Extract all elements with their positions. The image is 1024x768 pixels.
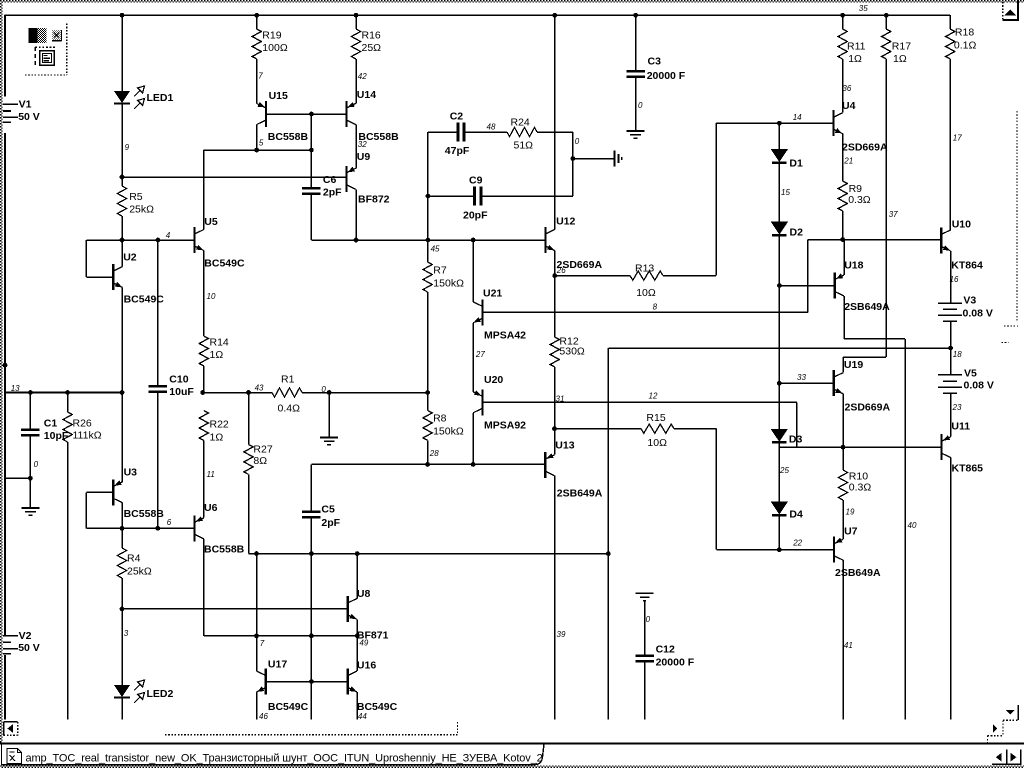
svg-text:R19: R19 (262, 30, 281, 42)
wire D3 to D4 (778, 442, 780, 501)
capacitor C10 (149, 385, 168, 388)
svg-text:40: 40 (908, 521, 917, 530)
wire U20 collector to node 28 rail (472, 413, 474, 465)
svg-text:36: 36 (842, 84, 851, 93)
wire base drive node 9 horizontal (122, 176, 346, 178)
wire C2 left (428, 131, 457, 133)
svg-text:2SB649A: 2SB649A (557, 488, 603, 500)
svg-text:2SB649A: 2SB649A (835, 567, 881, 579)
page boundary dotted corner top-left with icons (66, 24, 68, 76)
svg-text:37: 37 (889, 210, 898, 219)
wire V5 to U11 (950, 393, 952, 437)
wire D1 to D2 (778, 163, 780, 221)
svg-text:C9: C9 (469, 175, 483, 187)
svg-text:R17: R17 (892, 41, 911, 53)
svg-text:U9: U9 (357, 151, 371, 163)
svg-text:0.08 V: 0.08 V (963, 308, 993, 320)
window bottom dotted border (0, 766, 1024, 768)
svg-text:U11: U11 (951, 421, 970, 433)
transistor U4 2SD669A npn (832, 110, 834, 136)
wire U3 emitter from node 13 rail (121, 393, 123, 482)
transistor U15 BC558B pnp (265, 101, 267, 127)
LED D5 LED1 (114, 91, 130, 103)
svg-text:U21: U21 (483, 288, 502, 300)
svg-text:44: 44 (358, 712, 367, 721)
svg-text:8Ω: 8Ω (253, 455, 267, 467)
wire U8 collector to rail (356, 554, 358, 599)
wire U13 collector hanging (554, 476, 556, 720)
svg-text:11: 11 (207, 470, 215, 479)
wire U21 collector to node 45 rail (472, 240, 474, 302)
svg-text:MPSA42: MPSA42 (484, 330, 526, 342)
wire U11 collector hanging (950, 458, 952, 720)
svg-text:47pF: 47pF (445, 145, 470, 157)
resistor R11 (842, 15, 844, 29)
diode D3 (771, 429, 788, 442)
wire node 6 rail to y553 rail via R27 done above; rail y=553.6 (249, 553, 609, 555)
svg-text:R8: R8 (433, 413, 447, 425)
svg-text:V1: V1 (19, 99, 32, 111)
svg-text:2pF: 2pF (323, 187, 342, 199)
wire U7 collector hanging node 41 (842, 560, 844, 719)
wire U4 emitter to R9 (842, 134, 844, 181)
resistor R9 (838, 181, 847, 211)
wire U2 emitter down to node 13 rail (121, 288, 123, 393)
svg-text:2pF: 2pF (321, 517, 340, 529)
svg-text:0: 0 (321, 385, 326, 394)
svg-text:9: 9 (125, 143, 130, 152)
resistor R24 (507, 127, 537, 136)
node 45 rail horizontal (311, 239, 545, 241)
wire D2 to U18 base node (778, 236, 780, 286)
svg-text:33: 33 (797, 373, 806, 382)
svg-text:150kΩ: 150kΩ (433, 426, 464, 438)
wire LED2 cathode hanging (121, 698, 123, 720)
svg-text:D2: D2 (790, 227, 804, 239)
svg-text:U20: U20 (484, 374, 503, 386)
wire left supply column V1-V2 (4, 15, 6, 96)
transistor U17 BC549C npn (265, 669, 267, 695)
transistor U16 BC549C npn (347, 669, 349, 695)
diode D1 (778, 123, 780, 149)
wire hanging node 40 column (904, 339, 906, 720)
capacitor C3 (635, 15, 637, 70)
capacitor C12 (635, 654, 654, 657)
svg-text:31: 31 (556, 394, 565, 403)
svg-text:0.3Ω: 0.3Ω (848, 194, 871, 206)
svg-text:amp_TOC_real_transistor_new_OK: amp_TOC_real_transistor_new_OK_Транзисто… (26, 753, 543, 765)
svg-text:0.1Ω: 0.1Ω (954, 40, 977, 52)
svg-text:20000 F: 20000 F (656, 657, 695, 669)
svg-text:1Ω: 1Ω (210, 349, 224, 361)
transistor U8 BF871 npn (347, 596, 349, 622)
svg-text:111kΩ: 111kΩ (73, 430, 102, 442)
svg-text:13: 13 (11, 384, 20, 393)
svg-text:V2: V2 (19, 630, 32, 642)
svg-text:BF872: BF872 (358, 194, 390, 206)
wire node 18 corner down left side (607, 348, 609, 554)
svg-text:U2: U2 (123, 252, 137, 264)
svg-text:BF871: BF871 (357, 630, 389, 642)
svg-text:12: 12 (649, 392, 658, 401)
svg-text:V5: V5 (964, 368, 977, 380)
transistor U7 2SB649A pnp (833, 537, 835, 563)
svg-text:3: 3 (124, 629, 129, 638)
svg-text:U8: U8 (357, 588, 371, 600)
svg-text:D3: D3 (789, 434, 803, 446)
wire U3 base loop (86, 491, 113, 493)
svg-text:0.08 V: 0.08 V (964, 380, 994, 392)
resistor R8 (425, 390, 430, 395)
svg-text:19: 19 (846, 508, 855, 517)
resistor R19 (256, 15, 258, 29)
wire D4 to node 22 (778, 515, 780, 550)
svg-text:R27: R27 (253, 444, 272, 456)
svg-text:U12: U12 (556, 216, 575, 228)
document tab bar (2, 744, 545, 765)
wire U15 collector to node 5 rail (256, 125, 258, 151)
wire U6 collector down to node 49 rail (203, 539, 205, 636)
svg-text:0: 0 (575, 137, 580, 146)
svg-text:R26: R26 (73, 418, 92, 430)
wire U16 emitter node 44 (356, 692, 358, 720)
transistor U20 MPSA92 pnp (481, 389, 483, 415)
svg-text:1Ω: 1Ω (848, 53, 862, 65)
svg-text:1Ω: 1Ω (210, 432, 224, 444)
resistor R10 (842, 447, 844, 470)
svg-text:25: 25 (779, 466, 789, 475)
wire U18 collector down and right (843, 296, 845, 339)
wire U9 collector to node 45 rail (355, 189, 357, 240)
svg-text:R11: R11 (847, 41, 866, 53)
wire C12 ground column (636, 592, 654, 594)
svg-text:U5: U5 (204, 216, 218, 228)
ground at C1 (29, 478, 31, 508)
svg-text:22: 22 (792, 539, 802, 548)
ground at C3 (627, 130, 645, 132)
svg-text:R24: R24 (511, 117, 530, 129)
tab document icon (7, 749, 22, 764)
wire U17 emitter node 46 (256, 692, 258, 720)
wire R26 bottom hanging (67, 442, 69, 720)
svg-text:100Ω: 100Ω (262, 42, 288, 54)
wire U11 base rail (779, 446, 941, 448)
transistor U18 2SB649A pnp (834, 273, 836, 299)
wire U14 collector to U9 emitter (355, 125, 357, 169)
svg-text:35: 35 (859, 4, 868, 13)
battery V1 (3, 103, 18, 105)
icon dashed selection box with document (34, 47, 36, 67)
svg-text:U17: U17 (268, 659, 287, 671)
transistor U5 BC549C npn (193, 227, 195, 253)
svg-text:C6: C6 (323, 174, 337, 186)
svg-text:D1: D1 (789, 158, 803, 170)
transistor U3 BC558B pnp (112, 479, 114, 505)
resistor R27 (248, 393, 250, 445)
resistor R22 (199, 411, 208, 441)
svg-text:BC558B: BC558B (204, 544, 245, 556)
transistor U12 2SD669A npn (544, 227, 546, 253)
battery V5 (950, 348, 952, 375)
window top dotted border (0, 0, 1024, 2)
wire U2 collector (121, 240, 123, 267)
svg-text:C12: C12 (656, 644, 675, 656)
wire U10 base rail (808, 239, 942, 241)
svg-text:20pF: 20pF (463, 210, 488, 222)
svg-text:LED1: LED1 (147, 92, 174, 104)
resistor R18 (949, 15, 951, 29)
wire U12/R13 to D1 loop: R13 right up to node 14 (715, 123, 717, 275)
svg-text:U18: U18 (844, 260, 863, 272)
wire U3 collector to node 6 (121, 503, 123, 529)
wire node 31 horizontal (482, 401, 797, 403)
svg-text:BC549C: BC549C (204, 258, 245, 270)
svg-text:C5: C5 (321, 504, 335, 516)
capacitor C2 branch (427, 132, 429, 240)
svg-text:8: 8 (653, 303, 658, 312)
svg-text:15: 15 (781, 188, 790, 197)
svg-text:U4: U4 (842, 100, 856, 112)
horizontal scrollbar dotted track (165, 734, 458, 736)
wire node 4 rail (86, 239, 194, 241)
wire U8 base horizontal (122, 608, 348, 610)
svg-text:4: 4 (166, 231, 171, 240)
svg-text:150kΩ: 150kΩ (433, 278, 464, 290)
svg-text:50 V: 50 V (18, 111, 40, 123)
svg-text:46: 46 (259, 712, 268, 721)
wire diode string down to U19 base node 33 (778, 286, 780, 384)
page boundary dotted right upper (1016, 111, 1018, 322)
wire U5 emitter to R14 (203, 251, 205, 337)
svg-text:27: 27 (475, 350, 485, 359)
svg-text:2SD669A: 2SD669A (842, 142, 888, 154)
wire node 22 horizontal (716, 549, 834, 551)
resistor R16 (355, 15, 357, 29)
svg-text:25Ω: 25Ω (362, 42, 382, 54)
resistor R4 (121, 528, 123, 548)
capacitor C5 column (310, 464, 312, 510)
diode D4 (771, 502, 788, 515)
wire node 8 base rail (482, 311, 807, 313)
wire R24 right down to C9 (572, 132, 574, 196)
capacitor C1 (29, 393, 31, 429)
svg-text:10Ω: 10Ω (647, 437, 667, 449)
wire U5 collector to node 5 (203, 150, 205, 230)
svg-text:25kΩ: 25kΩ (127, 566, 152, 578)
resistor R14 (199, 336, 208, 366)
svg-text:5: 5 (259, 139, 264, 148)
svg-text:28: 28 (429, 449, 439, 458)
svg-text:0.4Ω: 0.4Ω (278, 403, 301, 415)
transistor U9 BF872 pnp (345, 166, 347, 192)
svg-text:U13: U13 (555, 440, 574, 452)
wire node8 corner up (807, 240, 809, 313)
svg-text:LED2: LED2 (147, 688, 174, 700)
svg-text:1Ω: 1Ω (893, 53, 907, 65)
icon half-dithered square (29, 28, 38, 43)
wire node 28 rail horizontal (311, 463, 545, 465)
svg-text:D4: D4 (789, 509, 803, 521)
wire C6 top column (310, 114, 312, 187)
resistor R1 (272, 388, 302, 397)
ground stub node 0 (573, 158, 615, 160)
wire diode string to D3 (778, 383, 780, 429)
svg-text:26: 26 (556, 266, 566, 275)
wire V3 to node 18 (950, 321, 952, 348)
wire U8 base drive junction (120, 607, 125, 612)
svg-text:7: 7 (260, 639, 265, 648)
wire C6 bottom to node 45 rail (310, 195, 312, 240)
wire node 13 input rail (5, 392, 122, 394)
svg-text:2SD669A: 2SD669A (845, 402, 891, 414)
capacitor C10 column (157, 240, 159, 385)
transistor U21 MPSA42 npn (481, 299, 483, 325)
svg-text:C10: C10 (169, 374, 188, 386)
wire top supply rail node 35 (5, 14, 951, 16)
wire R15 right down to node 22 (715, 429, 717, 550)
svg-text:R14: R14 (210, 337, 229, 349)
battery V3 (938, 302, 962, 304)
svg-text:U16: U16 (357, 660, 376, 672)
svg-text:42: 42 (358, 72, 367, 81)
svg-text:BC558B: BC558B (124, 508, 165, 520)
window left dotted border (0, 0, 2, 744)
svg-text:U15: U15 (269, 90, 288, 102)
svg-text:48: 48 (487, 123, 496, 132)
svg-text:U7: U7 (844, 526, 858, 538)
svg-text:39: 39 (557, 630, 566, 639)
wire U21 emitter to U20 emitter node 27 (472, 323, 474, 392)
wire node 18 column to bottom (607, 554, 609, 720)
svg-text:R16: R16 (362, 30, 381, 42)
svg-text:C1: C1 (44, 418, 58, 430)
scrollbar up-arrow button top right (1017, 0, 1019, 21)
transistor U6 BC558B pnp (193, 515, 195, 541)
svg-text:10: 10 (207, 292, 216, 301)
svg-text:23: 23 (952, 403, 962, 412)
svg-text:C3: C3 (648, 56, 662, 68)
wire LED1 branch from rail (121, 15, 123, 91)
icon small dithered box (52, 30, 61, 41)
svg-text:U19: U19 (844, 359, 863, 371)
svg-text:10Ω: 10Ω (636, 287, 656, 299)
window bottom line (0, 742, 1024, 744)
node 43 rail (203, 392, 272, 394)
svg-text:R7: R7 (433, 265, 447, 277)
wire U18 emitter up to U10 base rail (843, 240, 845, 276)
wire ground tap to left column (5, 477, 30, 479)
transistor U10 KT864 npn (940, 227, 942, 253)
svg-text:R15: R15 (646, 412, 665, 424)
svg-text:C2: C2 (450, 111, 464, 123)
transistor U19 2SD669A npn (833, 370, 835, 396)
wire C12 bottom hanging (644, 663, 646, 720)
wire C10 bottom to node 6 rail (157, 393, 159, 528)
transistor U13 2SB649A pnp (544, 452, 546, 478)
bottom-left scroll arrow button (4, 721, 18, 723)
wire node 49 horizontal (204, 635, 357, 637)
resistor R7 (427, 240, 429, 262)
capacitor C9 (428, 195, 473, 197)
wire U13 emitter junction (554, 402, 556, 454)
svg-text:BC558B: BC558B (268, 131, 309, 143)
svg-text:2SB649A: 2SB649A (844, 301, 890, 313)
wire U12 emitter to R13 junction (554, 251, 556, 313)
ground at R1 (328, 393, 330, 438)
diode D2 (771, 222, 788, 235)
transistor U14 BC558B pnp (345, 101, 347, 127)
transistor U11 KT865 pnp (940, 434, 942, 460)
capacitor C5 (302, 510, 321, 513)
wire U2 base loop (85, 240, 87, 277)
LED D6 LED2 (114, 685, 130, 697)
resistor R17 (885, 15, 887, 29)
battery V2 (3, 635, 18, 637)
wire U12 collector to top rail (554, 15, 556, 229)
svg-text:MPSA92: MPSA92 (484, 420, 526, 432)
resistor R13 (555, 275, 630, 277)
wire U18 base (779, 285, 834, 287)
resistor R5 (121, 177, 123, 186)
svg-text:32: 32 (358, 140, 367, 149)
svg-text:10uF: 10uF (169, 386, 194, 398)
wire C5 bottom hanging column (310, 519, 312, 720)
svg-text:0.3Ω: 0.3Ω (849, 482, 872, 494)
svg-text:R18: R18 (955, 27, 974, 39)
transistor U2 BC549C npn diode-connected (112, 264, 114, 290)
wire LED1 cathode to node 9 junction (121, 104, 123, 177)
wire U17 collector column (256, 554, 258, 671)
svg-text:R1: R1 (281, 374, 295, 386)
svg-text:41: 41 (844, 641, 853, 650)
svg-text:R4: R4 (127, 553, 141, 565)
capacitor C6 (302, 187, 321, 190)
svg-text:51Ω: 51Ω (514, 140, 534, 152)
svg-text:0: 0 (34, 460, 39, 469)
wire node 12 corner down (796, 402, 798, 447)
svg-text:R22: R22 (210, 419, 229, 431)
svg-text:6: 6 (167, 518, 172, 527)
svg-text:18: 18 (953, 350, 962, 359)
wire U19 base (779, 382, 833, 384)
svg-text:50 V: 50 V (18, 642, 40, 654)
svg-text:0: 0 (638, 101, 643, 110)
svg-text:25kΩ: 25kΩ (129, 204, 154, 216)
svg-text:43: 43 (255, 384, 264, 393)
svg-text:17: 17 (953, 134, 962, 143)
wire U8 emitter to U16 collector (356, 619, 358, 671)
wire U19 emitter down to node at R10 (842, 394, 844, 448)
svg-text:R5: R5 (129, 191, 143, 203)
wire U10 emitter to V3 (950, 251, 952, 303)
svg-text:BC549C: BC549C (268, 701, 309, 713)
svg-text:KT865: KT865 (952, 463, 984, 475)
resistor R26 (67, 393, 69, 413)
svg-text:0: 0 (646, 615, 651, 624)
svg-text:45: 45 (431, 245, 440, 254)
svg-text:530Ω: 530Ω (559, 346, 585, 358)
bottom-right horizontal scroll buttons (992, 763, 1022, 765)
wire U15-U14 base tie (266, 113, 346, 115)
svg-text:U3: U3 (124, 467, 138, 479)
svg-text:KT864: KT864 (951, 260, 983, 272)
wire node 18 horizontal (608, 347, 950, 349)
wire node 5 horizontal (203, 149, 311, 151)
svg-text:V3: V3 (963, 295, 976, 307)
wire R17 bottom jog to U19 collector (843, 356, 886, 358)
wire U17-U16 base tie (266, 681, 348, 683)
resistor R12 (554, 312, 556, 337)
